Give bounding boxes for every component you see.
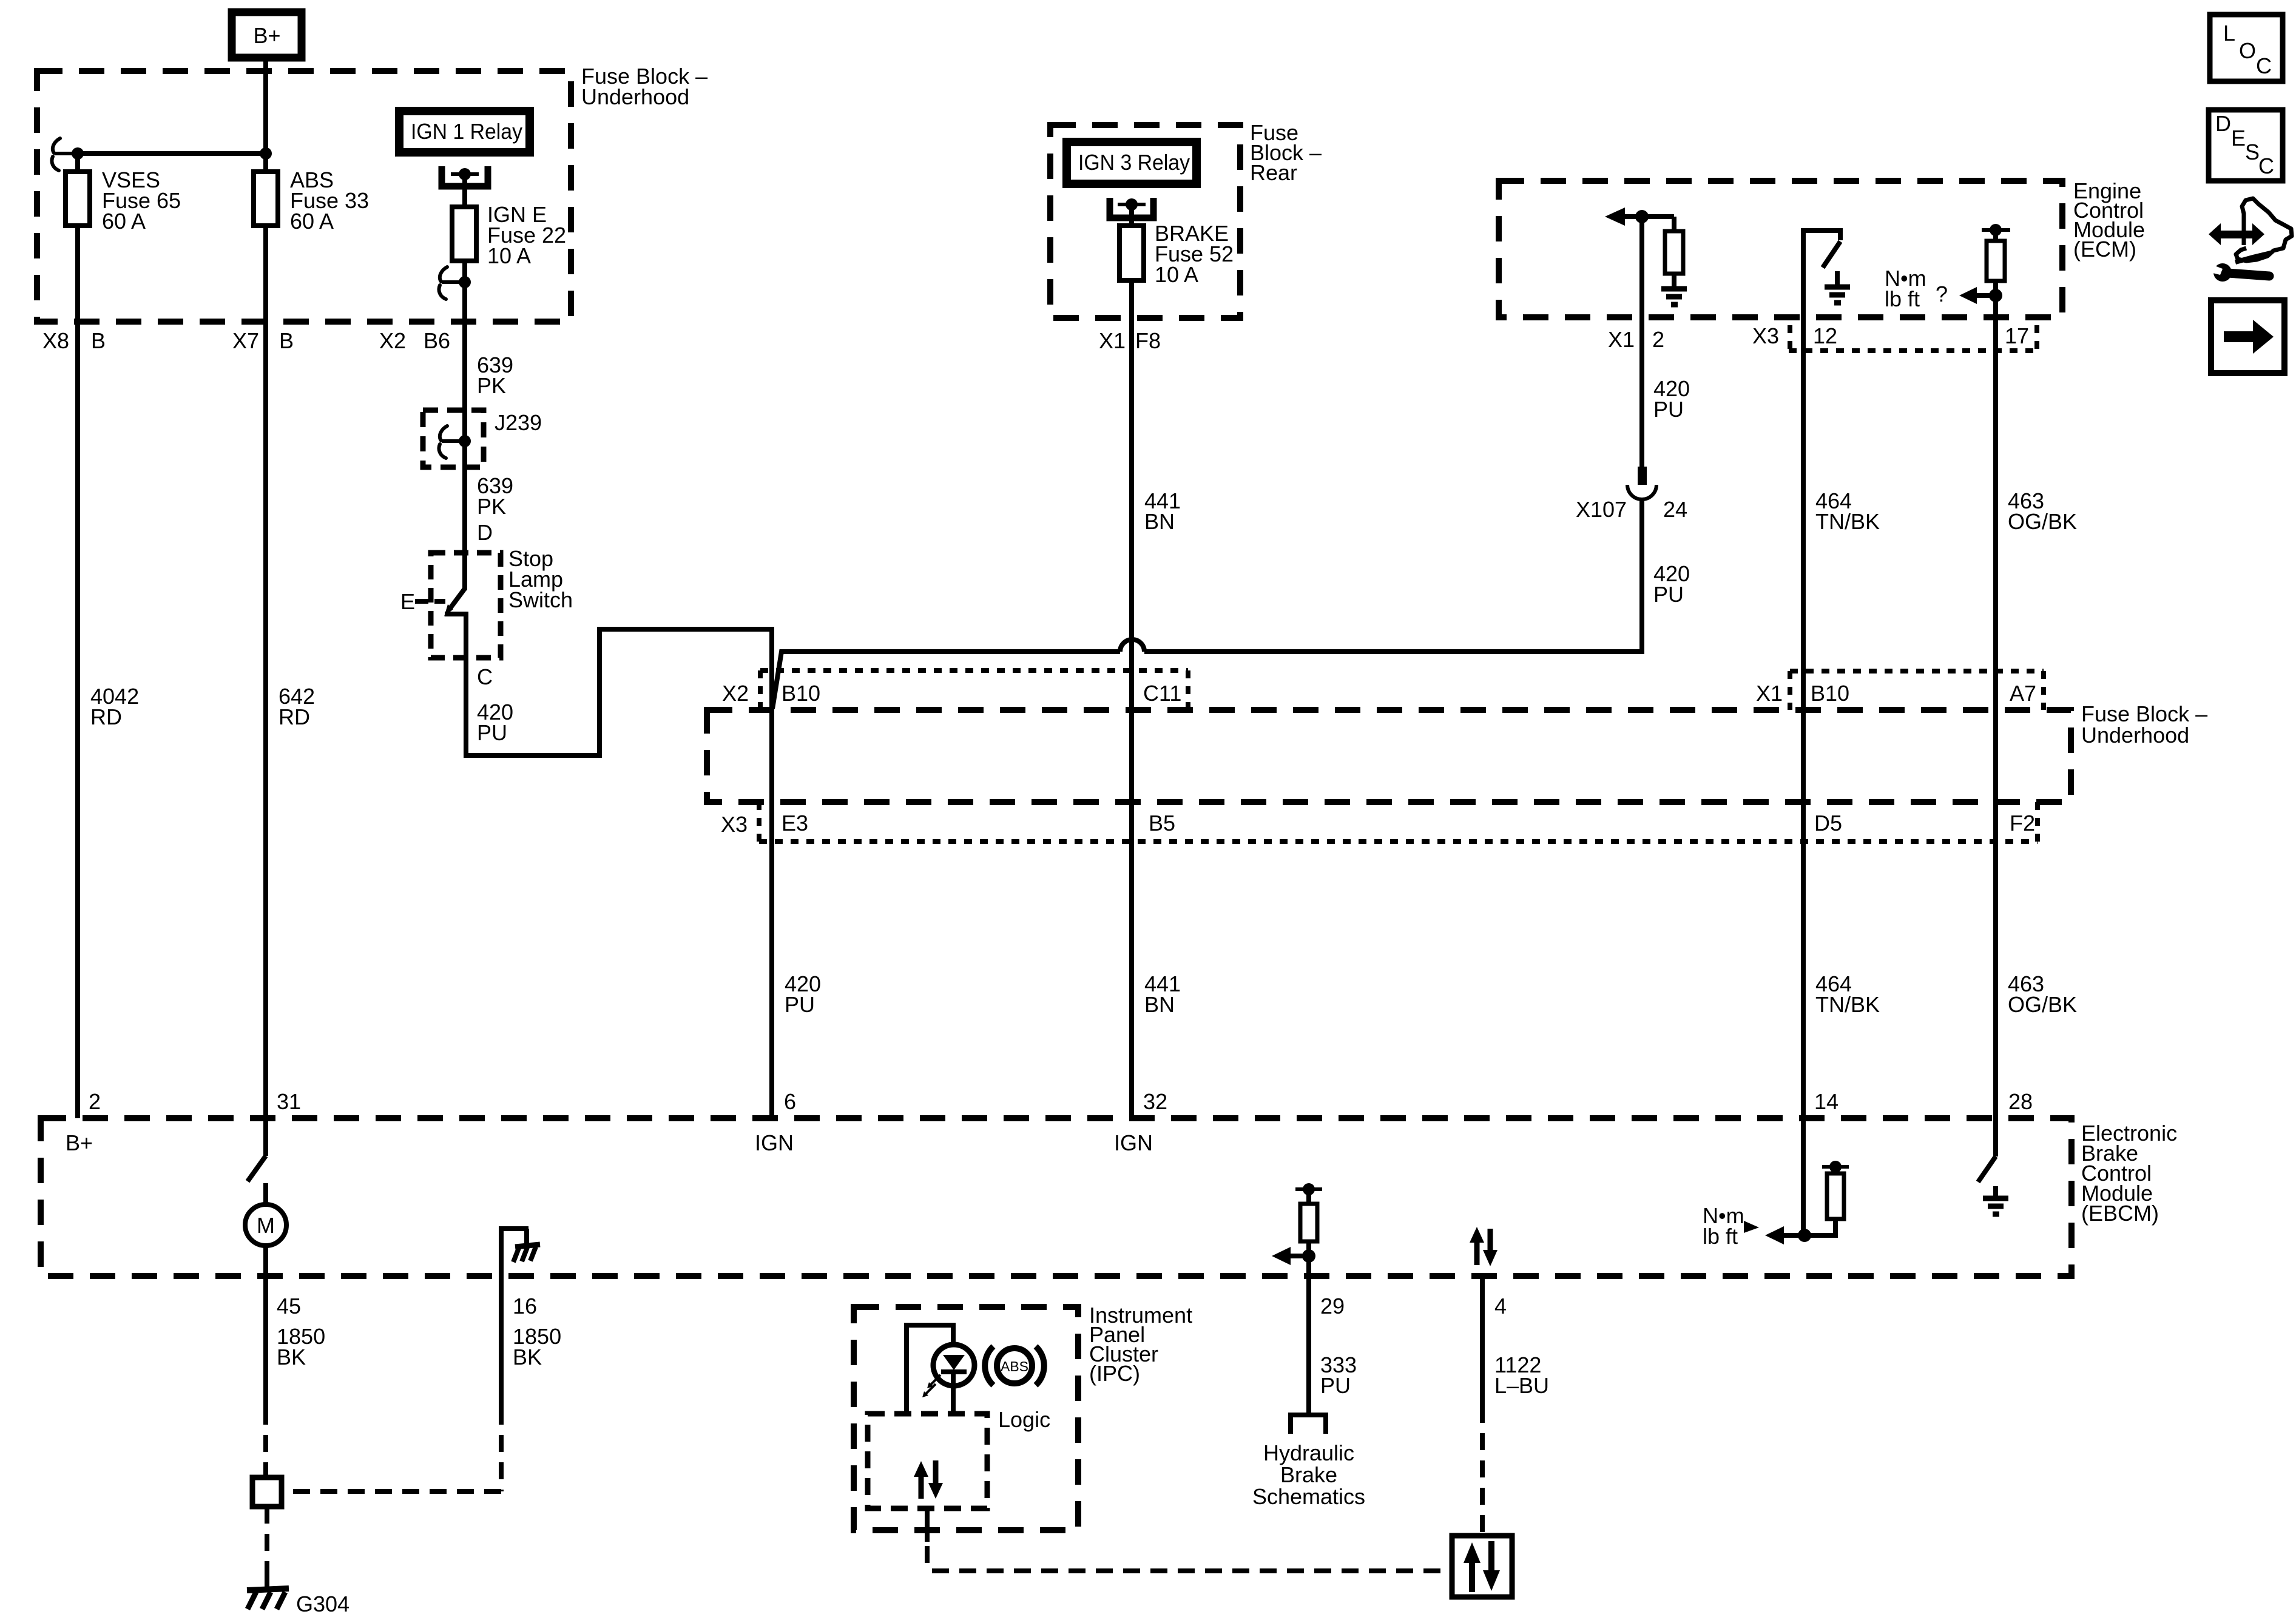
svg-text:Switch: Switch (508, 587, 573, 612)
EBCM resistor + torque arrow (pin 14) (1765, 1118, 1849, 1244)
svg-text:Underhood: Underhood (2081, 723, 2189, 748)
svg-text:PU: PU (1653, 582, 1684, 607)
ECM connector band X3 12 17 (1752, 323, 2037, 351)
svg-text:31: 31 (277, 1089, 301, 1114)
in-line connector X107 pin 24 (1576, 467, 1687, 522)
svg-text:X7: X7 (232, 328, 259, 353)
svg-text:E: E (2231, 126, 2246, 150)
forward arrow reference box (2211, 300, 2284, 373)
svg-text:M: M (257, 1213, 275, 1238)
svg-text:2: 2 (89, 1089, 101, 1114)
svg-text:D5: D5 (1814, 811, 1842, 836)
ECM internal arrow (signal out) (1605, 208, 1674, 226)
svg-text:BN: BN (1144, 992, 1175, 1017)
relay IGN1 output bracket (442, 166, 488, 186)
svg-text:Hydraulic: Hydraulic (1263, 1440, 1354, 1465)
svg-text:Brake: Brake (1280, 1462, 1337, 1487)
EBCM dashed box (41, 1118, 2071, 1276)
svg-text:B5: B5 (1149, 811, 1175, 836)
svg-text:X1: X1 (1608, 327, 1635, 352)
label Fuse Block - Rear (1250, 120, 1322, 185)
wire label 464 TN/BK (lower) (1815, 971, 1880, 1017)
LOC reference box (2210, 15, 2283, 81)
wire J239 to stop lamp switch (462, 479, 467, 590)
label Fuse Block - Underhood (top) (581, 64, 707, 109)
EBCM serial data arrows (pin 4) (1470, 1227, 1497, 1266)
EBCM chassis ground (pin 16) (501, 1229, 540, 1276)
svg-text:X1: X1 (1756, 681, 1783, 706)
wire 441 BN (fuse 52 to EBCM 32) (1129, 280, 1134, 1118)
label Hydraulic Brake Schematics (1252, 1440, 1365, 1509)
svg-text:X2: X2 (379, 328, 406, 353)
wire label 464 TN/BK (upper) (1815, 488, 1880, 534)
wire label 333 PU (1320, 1352, 1357, 1398)
EBCM pump switch blade (248, 1118, 266, 1181)
svg-text:?: ? (1936, 282, 1948, 306)
svg-text:D: D (2215, 111, 2231, 136)
svg-text:O: O (2239, 38, 2256, 63)
svg-text:BK: BK (277, 1345, 306, 1369)
wire fuse 22 to connector (462, 261, 467, 340)
wire relay3 to BRAKE fuse (1129, 204, 1134, 228)
fuse IGN E Fuse 22 (452, 202, 566, 268)
svg-text:OG/BK: OG/BK (2008, 992, 2077, 1017)
svg-text:(IPC): (IPC) (1089, 1361, 1140, 1386)
junction node at ABS feed (260, 147, 272, 160)
DESC reference box (2209, 110, 2283, 181)
wire 1122 L-BU dashed from EBCM 4 (1480, 1276, 1485, 1406)
svg-text:A7: A7 (2010, 681, 2036, 706)
svg-text:X107: X107 (1576, 497, 1627, 522)
connector band X3 E3 / B5 / D5 / F2 (dotted, bottom) (721, 802, 2038, 842)
fuse BRAKE Fuse 52 (1119, 221, 1234, 287)
wrench icon (1700, 263, 2269, 388)
svg-text:F2: F2 (2010, 811, 2035, 836)
wire label 420 PU (below X107) (1653, 561, 1690, 607)
hand tool icon (2209, 198, 2292, 262)
ECM switch to ground (wire 12) (1803, 231, 1840, 317)
wire B+ feed horizontal (78, 151, 266, 156)
logic serial arrows (914, 1460, 943, 1499)
label Fuse Block - Underhood (middle) (2081, 701, 2207, 748)
svg-text:45: 45 (277, 1294, 301, 1318)
wire hop over 441 BN (1120, 640, 1144, 652)
wire to G304 (265, 1507, 269, 1586)
wire label 1850 BK (pin 16) (513, 1324, 561, 1369)
wire label 639 PK (lower) (477, 473, 513, 519)
svg-text:B10: B10 (782, 681, 820, 706)
wire fuse22 to J239 (462, 340, 467, 479)
svg-text:X3: X3 (1752, 323, 1779, 348)
connector labels X2 B6 (379, 328, 450, 353)
svg-text:PK: PK (477, 373, 506, 398)
svg-text:J239: J239 (495, 410, 542, 435)
svg-text:12: 12 (1813, 323, 1837, 348)
wire 420 PU routing to B10 (466, 629, 772, 1118)
in-line connector hook below fuse 22 (439, 267, 471, 299)
svg-text:C: C (477, 664, 493, 689)
svg-text:lb ft: lb ft (1885, 286, 1920, 311)
ground G304 (247, 1578, 349, 1616)
svg-text:X2: X2 (722, 681, 749, 706)
wire 463 OG/BK (ECM 17 to EBCM 28) (1993, 295, 1998, 1118)
svg-text:B: B (91, 328, 106, 353)
ECM pin labels X1 2 (1608, 327, 1664, 352)
IPC lamp feed wire (907, 1325, 953, 1414)
svg-text:Rear: Rear (1250, 160, 1297, 185)
wire label 420 PU (upper X107) (1653, 376, 1690, 422)
svg-text:PU: PU (1320, 1373, 1351, 1398)
hydraulic brake bracket (1291, 1415, 1326, 1434)
svg-text:L: L (2223, 21, 2235, 46)
svg-text:PU: PU (1653, 397, 1684, 422)
svg-text:BK: BK (513, 1345, 542, 1369)
svg-text:IGN: IGN (755, 1130, 794, 1155)
svg-text:24: 24 (1663, 497, 1687, 522)
wire 642 RD (ABS fuse to EBCM pin 31) (263, 226, 268, 1118)
ECM resistor on wire 17 (1982, 224, 2010, 317)
fuse block underhood (top) dashed box (37, 71, 571, 322)
svg-text:B6: B6 (424, 328, 450, 353)
svg-text:E: E (400, 589, 415, 614)
ground (ECM resistor) (1661, 289, 1687, 305)
wire logic to serial bus (925, 1508, 930, 1542)
wire label 1122 L-BU (1494, 1352, 1549, 1398)
wire label 420 PU (lower) (785, 971, 821, 1017)
svg-text:(ECM): (ECM) (2073, 237, 2136, 262)
svg-text:PK: PK (477, 494, 506, 519)
svg-text:16: 16 (513, 1294, 537, 1318)
svg-text:10 A: 10 A (487, 243, 531, 268)
svg-text:B+: B+ (253, 23, 280, 48)
terminal E with dashed stub (400, 589, 445, 614)
in-line connector hook at X8 feed (52, 138, 84, 170)
logic dashed box (868, 1407, 1050, 1508)
svg-text:TN/BK: TN/BK (1815, 992, 1880, 1017)
wire 1850 BK from pin 16 (282, 1276, 501, 1491)
svg-text:29: 29 (1320, 1294, 1345, 1318)
svg-text:Logic: Logic (998, 1407, 1050, 1432)
svg-text:4: 4 (1494, 1294, 1507, 1318)
wire relay to IGN E fuse (462, 174, 467, 209)
ABS indicator symbol (985, 1346, 1044, 1385)
svg-text:10 A: 10 A (1155, 262, 1198, 287)
relay IGN3 output bracket (1110, 198, 1153, 218)
svg-text:OG/BK: OG/BK (2008, 509, 2077, 534)
svg-text:F8: F8 (1135, 328, 1161, 353)
connector labels X8 B (42, 328, 106, 353)
ECM dashed box (1499, 181, 2062, 317)
wire 4042 RD (VSES fuse to EBCM pin 2) (75, 226, 80, 1118)
wire label 4042 RD (90, 684, 139, 729)
svg-text:IGN 1 Relay: IGN 1 Relay (411, 119, 522, 144)
fuse block rear dashed box (1050, 125, 1240, 318)
switch blade stop lamp (444, 589, 466, 658)
svg-text:X3: X3 (721, 812, 748, 837)
lamp light arrows (922, 1375, 940, 1397)
connector band X1 B10 / A7 (dotted, top right) (1756, 671, 2044, 710)
svg-text:2: 2 (1652, 327, 1664, 352)
EBCM switch to ground (pin 28) (1978, 1118, 2008, 1214)
label Instrument Panel Cluster (IPC) (1089, 1303, 1192, 1386)
wire B+ vertical (263, 58, 268, 174)
svg-text:lb ft: lb ft (1703, 1224, 1738, 1249)
connector labels X7 B (232, 328, 294, 353)
EBCM torque label N*m lb ft with arrow (1703, 1203, 1759, 1249)
svg-text:G304: G304 (296, 1592, 349, 1616)
svg-text:BN: BN (1144, 509, 1175, 534)
svg-text:IGN 3 Relay: IGN 3 Relay (1078, 150, 1190, 175)
svg-text:C: C (2258, 154, 2274, 178)
svg-text:Schematics: Schematics (1252, 1484, 1365, 1509)
wire 420 PU from ECM X1-2 (1639, 217, 1644, 469)
svg-text:60 A: 60 A (290, 209, 334, 234)
connector labels X1 F8 (1099, 328, 1161, 353)
EBCM hydraulic arrow (pin 29) (1272, 1247, 1315, 1265)
wire VSES feed (75, 154, 80, 174)
svg-text:E3: E3 (782, 811, 808, 836)
relay IGN 1 Relay box (399, 111, 530, 152)
EBCM hydraulic resistor (pin 29) (1295, 1183, 1322, 1416)
svg-text:B: B (279, 328, 294, 353)
svg-text:14: 14 (1814, 1089, 1838, 1114)
wire label 639 PK (upper) (477, 353, 513, 398)
wire label 441 BN (upper) (1144, 488, 1181, 534)
svg-text:Underhood: Underhood (581, 84, 689, 109)
in-line connector hook inside J239 (439, 426, 471, 458)
svg-text:RD: RD (90, 704, 122, 729)
svg-text:IGN: IGN (1114, 1130, 1153, 1155)
connector band X2 B10 / C11 (dotted, top left) (722, 670, 1188, 709)
svg-text:PU: PU (477, 720, 507, 745)
ECM torque arrow N*m lb ft ? (1885, 266, 2002, 311)
power feed B+ box (232, 12, 302, 58)
svg-text:B+: B+ (66, 1130, 93, 1155)
splice J239 dashed box (423, 410, 542, 467)
svg-text:D: D (477, 520, 493, 545)
svg-text:ABS: ABS (1001, 1359, 1028, 1374)
svg-text:X1: X1 (1099, 328, 1126, 353)
switch Stop Lamp Switch dashed box (431, 546, 573, 658)
svg-text:TN/BK: TN/BK (1815, 509, 1880, 534)
fuse VSES Fuse 65 (66, 167, 181, 234)
wire 1850 BK from pin 45 (263, 1276, 268, 1477)
svg-text:L–BU: L–BU (1494, 1373, 1549, 1398)
svg-text:60 A: 60 A (102, 209, 146, 234)
svg-text:PU: PU (785, 992, 815, 1017)
fuse ABS Fuse 33 (254, 167, 369, 234)
indicator lamp LED (933, 1345, 974, 1414)
motor M pump (245, 1183, 286, 1276)
ground splice connector square (252, 1477, 282, 1507)
wire label 463 OG/BK (lower) (2008, 971, 2077, 1017)
serial data gateway box with arrows (1452, 1536, 1512, 1597)
svg-text:32: 32 (1143, 1089, 1167, 1114)
wire 464 TN/BK (ECM 12 to EBCM 14) (1801, 317, 1806, 1118)
wire label 463 OG/BK (upper) (2008, 488, 2077, 534)
label Electronic Brake Control Module (EBCM) (2081, 1121, 2177, 1226)
svg-text:(EBCM): (EBCM) (2081, 1201, 2159, 1226)
svg-text:X8: X8 (42, 328, 69, 353)
IPC dashed box (854, 1307, 1078, 1530)
wire 420 PU down from X107 and across to B10 (772, 498, 1642, 709)
svg-text:28: 28 (2008, 1089, 2033, 1114)
ground (ECM switch) (1825, 271, 1850, 303)
svg-text:S: S (2245, 140, 2260, 164)
wire label 1850 BK (pin 45) (277, 1324, 325, 1369)
wire label 642 RD (279, 684, 315, 729)
svg-text:B10: B10 (1811, 681, 1849, 706)
svg-text:C: C (2256, 53, 2272, 78)
svg-text:C11: C11 (1143, 681, 1181, 706)
wire label 441 BN (lower) (1144, 971, 1181, 1017)
svg-text:RD: RD (279, 704, 310, 729)
svg-text:6: 6 (784, 1089, 796, 1114)
fuse block underhood (middle) dashed box (707, 710, 2071, 802)
wire label 420 PU (stop lamp out) (477, 700, 513, 745)
relay IGN 3 Relay box (1067, 142, 1197, 184)
serial data dashed wire to gateway (932, 1568, 1450, 1573)
label Engine Control Module (ECM) (2073, 178, 2145, 262)
svg-text:17: 17 (2005, 323, 2029, 348)
ECM pull-up resistor to ground (1665, 217, 1683, 288)
